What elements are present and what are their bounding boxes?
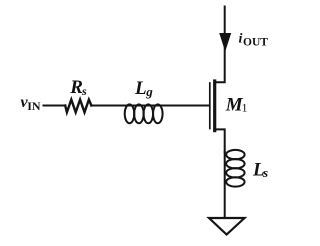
svg-text:s: s — [81, 84, 87, 98]
svg-text:g: g — [145, 84, 153, 99]
wire Lg to gate — [163, 105, 209, 107]
resistor Rs — [65, 100, 91, 113]
wire Ls to ground — [224, 152, 226, 218]
svg-text:L: L — [134, 78, 147, 99]
svg-text:R: R — [69, 77, 83, 98]
ground — [209, 218, 245, 235]
svg-text:s: s — [262, 165, 268, 180]
svg-text:IN: IN — [27, 99, 41, 113]
wire vIN to resistor — [44, 105, 66, 107]
svg-text:i: i — [239, 32, 243, 47]
wire under Lg — [125, 105, 162, 107]
transistor M1 channel bar — [213, 81, 216, 131]
inductor Ls — [226, 150, 244, 187]
inductor Lg — [125, 104, 163, 123]
current arrow iOUT — [219, 33, 231, 52]
transistor M1 drain stub — [215, 7, 225, 83]
transistor M1 gate bar — [209, 83, 211, 129]
wire resistor to inductor Lg — [91, 105, 125, 107]
svg-text:OUT: OUT — [243, 37, 268, 49]
transistor M1 source stub — [215, 129, 225, 152]
svg-text:1: 1 — [242, 101, 248, 115]
